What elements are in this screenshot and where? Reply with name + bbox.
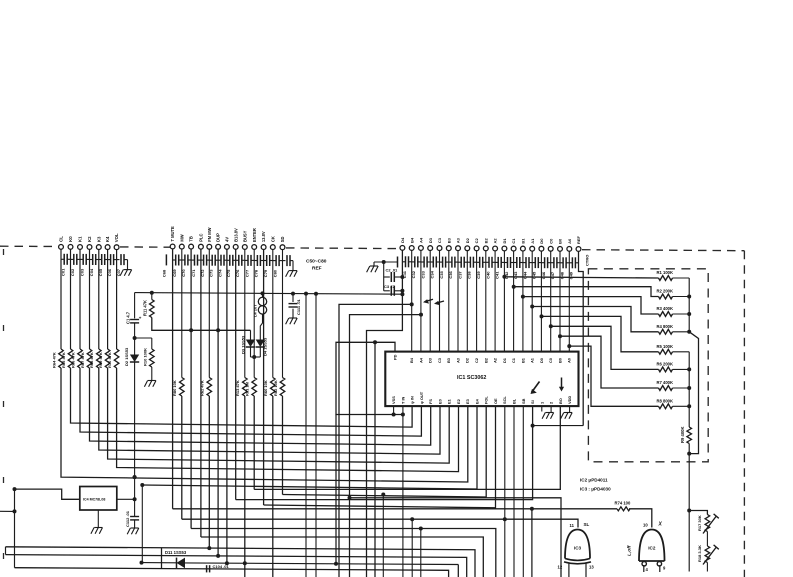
wire vertical x306 (305, 294, 307, 577)
svg-text:C2: C2 (474, 238, 479, 244)
connector pin K1 (78, 245, 83, 250)
connector pin B0 (558, 247, 563, 252)
capacitor C03 (80, 258, 83, 260)
connector pin 13.8V (261, 245, 266, 250)
wire (411, 251, 413, 352)
svg-text:FOL: FOL (484, 396, 489, 404)
svg-text:R4 800K: R4 800K (657, 324, 674, 329)
wire from pin 13.8V (263, 250, 265, 505)
svg-text:A1: A1 (530, 238, 535, 244)
svg-text:D2: D2 (465, 357, 470, 363)
resistor R9 400K (687, 427, 692, 444)
svg-text:T IN: T IN (400, 396, 405, 404)
connector pin D2 (465, 246, 470, 251)
svg-text:K0: K0 (68, 236, 73, 242)
svg-text:FS: FS (428, 399, 433, 404)
capacitor C41 (495, 261, 498, 263)
svg-text:B1: B1 (520, 357, 525, 363)
svg-text:T MUTE: T MUTE (170, 226, 175, 242)
node feed R5 (540, 314, 544, 318)
capacitor C31 (402, 261, 405, 263)
wire group1 to IC1 (116, 250, 118, 349)
connector pin C0 (548, 246, 553, 251)
wire (559, 252, 561, 352)
svg-text:FM MW: FM MW (207, 227, 212, 241)
wire vertical x336 down to rail (335, 415, 337, 564)
diode D11 1SS53 (177, 558, 186, 569)
capacitor C73 (209, 259, 212, 261)
wire vertical x316 (315, 294, 317, 577)
wire to bus (673, 351, 690, 353)
wire L1 MW line to IC3 gate (182, 519, 578, 527)
capacitor C71 (191, 259, 194, 261)
connector pin MW (179, 244, 184, 249)
connector pin K0 (68, 245, 73, 250)
wire (429, 251, 431, 352)
capacitor C72 (201, 259, 204, 261)
svg-text:D1: D1 (502, 238, 507, 244)
wire vertical below SCL (504, 406, 506, 577)
svg-text:B3: B3 (446, 237, 451, 243)
wire to bus (673, 405, 690, 407)
wire (244, 396, 246, 577)
wire from pin B13.8V (235, 250, 237, 500)
resistor R3 400K (659, 312, 673, 317)
svg-text:SCL: SCL (502, 396, 507, 404)
svg-text:R80 10K: R80 10K (172, 380, 177, 396)
svg-text:R67 47K: R67 47K (80, 352, 85, 368)
resistor R81 1M (252, 378, 257, 397)
wire (420, 251, 422, 352)
wire group1 to IC1 (107, 250, 109, 349)
capacitor after SD with ground (283, 260, 286, 262)
wire from pin FM MW (208, 249, 210, 377)
capacitor C02 (71, 258, 74, 260)
wire line turning down right of gates (350, 498, 562, 577)
gate IC2 (NAND) (639, 530, 665, 562)
connector pin C3 (437, 246, 442, 251)
diode D2 1SS53 (130, 355, 139, 363)
svg-text:R81 1M: R81 1M (245, 381, 250, 396)
capacitor C40 (486, 261, 489, 263)
wire (476, 251, 478, 352)
capacitor C33 (421, 261, 424, 263)
wire IC3 inputs (568, 563, 570, 577)
wire vertical from L2 (420, 529, 422, 577)
wire from pin 4V (226, 250, 228, 562)
node feed R3 (521, 295, 525, 299)
wire vertical branch on R74 feed (531, 509, 533, 577)
node feed R7 (558, 334, 562, 338)
wire C1 to D2 (134, 323, 136, 355)
wire (466, 251, 468, 352)
svg-text:R60 10K: R60 10K (263, 380, 268, 396)
connector pin D1 (502, 246, 507, 251)
wire IC1 pin 2 stub to ground (550, 406, 552, 412)
annotation arrow at IC1 pin BO (561, 378, 563, 391)
connector pin C2 (474, 246, 479, 251)
svg-text:IC3 : μPD4030: IC3 : μPD4030 (580, 487, 611, 492)
svg-text:R70 47K: R70 47K (107, 352, 112, 368)
trimmer R18 3.3K (705, 546, 710, 563)
wire to bus (673, 277, 690, 279)
capacitor C38 (467, 261, 470, 263)
wire left edge feed (0, 510, 15, 512)
wire ladder bus lower (R5-R8) (688, 352, 690, 427)
capacitor C78 (254, 260, 257, 262)
svg-text:R18 3.3K: R18 3.3K (697, 545, 702, 562)
wire rail C continue (184, 563, 458, 565)
svg-text:SI: SI (530, 400, 535, 404)
wire F8 8V node to IC1 E4 (142, 406, 477, 489)
ground under IC1 pin 2 (546, 412, 554, 414)
svg-text:R8 800K: R8 800K (657, 399, 674, 404)
capacitor C47 (551, 262, 554, 264)
connector pin A4 (419, 246, 424, 251)
wire F9 SD to IC1 FOL (283, 406, 487, 497)
wire to bus (673, 387, 690, 389)
svg-text:A2: A2 (493, 238, 498, 244)
wire (71, 368, 413, 427)
wire vertical below T IN line (402, 415, 404, 577)
capacitor C37 (458, 261, 461, 263)
capacitor C68 (series plate before T MUTE) (165, 254, 167, 265)
wire rail A (6, 547, 476, 577)
capacitor C07 (117, 259, 120, 261)
wire from pin TB (190, 249, 192, 528)
svg-text:R68 47K: R68 47K (89, 352, 94, 368)
wire (457, 251, 459, 352)
connector pin CK (270, 245, 275, 250)
capacitor C36 (449, 261, 452, 263)
wire vertical from F9 (382, 495, 384, 577)
svg-text:12: 12 (558, 565, 563, 570)
capacitor C79 (264, 260, 267, 262)
connector pin D3 (428, 246, 433, 251)
connector pin DUP (216, 244, 221, 249)
IC U1 IC1 SC3062 (385, 352, 578, 407)
resistor R7 400K (659, 386, 673, 391)
capacitor C76 (236, 259, 239, 261)
wire group1 to IC1 (89, 250, 91, 349)
svg-text:R6 200K: R6 200K (657, 362, 674, 367)
diode D3 1SS53 (250, 330, 252, 339)
wire left vertical (14, 489, 16, 568)
svg-text:R62 47K: R62 47K (200, 380, 205, 396)
svg-text:TB: TB (189, 236, 194, 242)
resistor R6 200K (659, 367, 673, 372)
connector pin A3 (456, 246, 461, 251)
wire staircase (560, 336, 659, 388)
wire from pin MW (181, 249, 183, 377)
wire vertical link to D11 rail (141, 485, 143, 562)
svg-text:A3: A3 (456, 237, 461, 243)
wire group1 to IC1 (70, 250, 72, 350)
svg-text:A0: A0 (567, 358, 572, 363)
svg-text:C0: C0 (548, 238, 553, 244)
svg-text:B2: B2 (483, 357, 488, 363)
wire staircase (542, 316, 659, 351)
svg-text:E4: E4 (474, 398, 479, 404)
wire grounded cap feed (374, 261, 398, 263)
svg-text:C1 4.7: C1 4.7 (126, 311, 131, 324)
capacitor C35 (440, 261, 443, 263)
node feed R4 (530, 305, 534, 309)
capacitor C104 .01 in rail (206, 565, 208, 572)
connector pin T MUTE (170, 244, 175, 249)
wire group1 to IC1 (79, 250, 81, 349)
svg-text:13.8V: 13.8V (261, 231, 266, 242)
capacitor C46 (541, 262, 544, 264)
connector pin BUSY (242, 245, 247, 250)
svg-text:C50~C80: C50~C80 (306, 259, 327, 265)
connector pin CL (59, 245, 64, 250)
svg-text:SB: SB (521, 398, 526, 404)
resistor R74 100 (617, 507, 630, 511)
svg-text:K1: K1 (78, 236, 83, 242)
capacitor C42 (504, 262, 507, 264)
svg-text:C3 47: C3 47 (384, 284, 395, 289)
svg-text:R13 47K: R13 47K (235, 380, 240, 396)
wire (282, 396, 284, 495)
wire to bus (673, 313, 690, 315)
svg-text:K2: K2 (87, 236, 92, 242)
capacitor C44 (523, 262, 526, 264)
resistor R67 47K (87, 349, 92, 368)
resistor R11 47K (151, 293, 153, 300)
wire from pin SD (282, 250, 284, 378)
connector pin A2 (493, 246, 498, 251)
svg-text:φ IN: φ IN (410, 396, 415, 404)
wire 8V rail (135, 293, 403, 295)
resistor R5 100K (659, 349, 673, 354)
capacitor C01 (61, 258, 64, 260)
svg-text:C112 .01: C112 .01 (125, 510, 130, 527)
svg-text:R3 400K: R3 400K (657, 306, 674, 311)
wire (522, 251, 524, 351)
wire C2/C3 left branch (383, 262, 385, 291)
resistor R10 100K (135, 337, 152, 339)
svg-text:R5 100K: R5 100K (657, 344, 674, 349)
dashed boundary left edge (3, 249, 5, 577)
node feed R6 (549, 324, 553, 328)
wire (99, 368, 440, 454)
svg-text:MW: MW (179, 234, 184, 241)
svg-text:4V: 4V (225, 237, 230, 242)
connector pin A1 (530, 246, 535, 251)
svg-text:D4: D4 (400, 237, 405, 243)
svg-text:C3: C3 (437, 357, 442, 363)
resistor R13 47K (243, 378, 248, 397)
wire (108, 368, 450, 463)
wire rail C (D11 rail) (142, 562, 177, 564)
wire staircase (532, 307, 658, 332)
resistor R80 10K (180, 378, 185, 397)
connector pin K3 (96, 245, 101, 250)
wire D2 down (8V node) (134, 362, 136, 516)
wire (540, 251, 542, 351)
wire (253, 396, 255, 489)
ground after group2 (292, 261, 294, 271)
svg-text:A1: A1 (530, 357, 535, 363)
svg-text:R64 47K: R64 47K (51, 352, 56, 368)
wire rail D (15, 568, 449, 577)
resistor R8 800K (659, 404, 673, 409)
svg-text:PLC: PLC (199, 233, 204, 241)
svg-text:B1: B1 (521, 238, 526, 244)
wire R74 to IC2 gate (629, 509, 652, 528)
svg-text:CK: CK (270, 236, 275, 242)
capacitor C111 .01 (292, 294, 294, 302)
dashed boundary right edge (743, 251, 745, 577)
gate IC3 (XOR) (565, 530, 590, 559)
svg-text:R65 47K: R65 47K (61, 352, 66, 368)
svg-text:L4 10T: L4 10T (253, 304, 258, 317)
svg-text:A4: A4 (419, 237, 424, 243)
capacitor C70 (182, 259, 185, 261)
wire IC1 pin 1 stub (541, 406, 543, 411)
capacitor C74 (218, 259, 221, 261)
svg-text:R11 47K: R11 47K (142, 300, 147, 316)
svg-text:C1: C1 (511, 357, 516, 363)
wire staircase (569, 346, 658, 406)
wire bus down to trimmers (688, 454, 690, 572)
wire elbow to pin A4 column (350, 315, 422, 577)
wire IC4 ground stub (97, 510, 99, 528)
svg-text:C111 .01: C111 .01 (296, 298, 301, 315)
resistor R68 47K (97, 349, 102, 368)
svg-text:A2: A2 (493, 357, 498, 363)
wire from pin DUP (217, 249, 219, 554)
svg-text:C68: C68 (161, 269, 166, 277)
wire vertical link rails (161, 548, 163, 569)
wire rail B (6, 555, 467, 577)
wire (117, 368, 459, 472)
svg-text:SL: SL (584, 522, 590, 527)
svg-text:D2 1SS53: D2 1SS53 (124, 347, 129, 366)
connector pin B1 (521, 246, 526, 251)
wire ladder bypass of R9 (689, 332, 698, 454)
wire IC2 inputs (643, 565, 645, 572)
svg-text:10: 10 (643, 523, 648, 528)
wire ladder bus upper (R1-R4) (688, 278, 690, 332)
svg-text:VDD: VDD (567, 396, 572, 404)
wire (503, 251, 505, 352)
wire IC1 T IN stub (402, 406, 404, 414)
svg-text:C1: C1 (511, 238, 516, 244)
wire CL down (60, 250, 62, 350)
svg-text:13: 13 (589, 565, 594, 570)
svg-text:X: X (658, 522, 663, 528)
connector pin 4V (225, 245, 230, 250)
svg-text:E0: E0 (437, 399, 442, 404)
svg-text:D3: D3 (428, 357, 433, 363)
resistor R66 47K (78, 349, 83, 368)
svg-text:OE: OE (493, 398, 498, 404)
svg-text:B4: B4 (409, 237, 414, 243)
wire elbow to pin B4 column (339, 304, 412, 577)
connector pin D0 (539, 246, 544, 251)
wire staircase (551, 326, 659, 369)
svg-text:IC2: IC2 (648, 546, 656, 551)
connector pin A0 (567, 247, 572, 252)
svg-text:R66 47K: R66 47K (70, 352, 75, 368)
wire (208, 396, 210, 547)
wire (550, 251, 552, 351)
svg-text:D3: D3 (428, 237, 433, 243)
wire (448, 251, 450, 352)
wire from pin D4 elbow left to vertical (367, 251, 403, 577)
connector pin B13.8V (233, 245, 238, 250)
wire from pin PLC (200, 249, 202, 537)
wire group1 to IC1 (98, 250, 100, 349)
node feed R1 (502, 275, 506, 279)
wire IC1 VSS stub (393, 406, 395, 414)
wire (485, 251, 487, 352)
capacitor C05 (99, 259, 102, 261)
svg-text:A0: A0 (567, 238, 572, 244)
svg-text:φ OUT: φ OUT (419, 391, 424, 404)
wire R74 feed line (173, 508, 617, 510)
wire (513, 251, 515, 351)
connector pin C1 (511, 246, 516, 251)
svg-text:D1: D1 (502, 357, 507, 363)
node feed R8 (567, 344, 571, 348)
connector pin PLC (199, 244, 204, 249)
svg-text:BL: BL (512, 398, 517, 404)
wire REF line to pin SI chain (533, 425, 584, 427)
wire vertical below BL (513, 406, 515, 577)
capacitor C112 .01 (130, 516, 139, 518)
svg-text:L,off: L,off (627, 545, 633, 556)
svg-text:R7 400K: R7 400K (657, 380, 674, 385)
wire from pin CK (272, 250, 274, 378)
svg-text:A4: A4 (418, 357, 423, 363)
wire staircase (514, 287, 659, 297)
IC U4 MC78L08 (80, 487, 117, 511)
svg-text:DUP: DUP (216, 233, 221, 242)
ground under IC1 VDD (564, 412, 572, 414)
svg-text:CTRO: CTRO (585, 255, 590, 266)
wire F10 13.8V to IC1 OE (264, 406, 496, 508)
resistor R82 10K (280, 378, 285, 397)
ground under R10 (151, 367, 153, 381)
connector pin B4 (409, 246, 414, 251)
svg-text:E1: E1 (447, 398, 452, 404)
wire staircase (504, 277, 658, 278)
svg-text:C2: C2 (474, 357, 479, 363)
capacitor C2 .01 (384, 276, 390, 278)
wire between trimmers (706, 532, 708, 547)
annotation arrow at IC1 pin SI (532, 382, 540, 393)
wire (568, 252, 570, 352)
svg-text:R82 10K: R82 10K (273, 380, 278, 396)
svg-text:C3: C3 (437, 237, 442, 243)
svg-text:IC3: IC3 (574, 546, 582, 551)
wire (439, 251, 441, 352)
wire chain pin SI left (236, 406, 533, 500)
connector pin ENTER (252, 245, 257, 250)
wire L2 TB line (191, 529, 496, 577)
capacitor C43 (514, 262, 517, 264)
resistor R65 47K (68, 349, 73, 368)
wire (181, 396, 183, 519)
svg-text:A3: A3 (455, 357, 460, 363)
wire to bus (673, 296, 690, 298)
svg-text:R1 100K: R1 100K (657, 270, 674, 275)
svg-text:ENTER: ENTER (252, 228, 257, 242)
wire vertical from L1 (411, 519, 413, 577)
